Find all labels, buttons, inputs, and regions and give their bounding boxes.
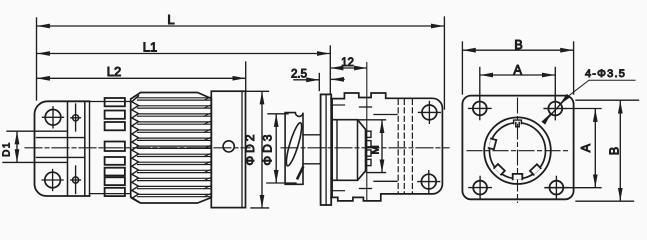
dimension extension line left (x=36.5) bbox=[36, 18, 38, 100]
coupling nut flute zigzag edge bbox=[132, 96, 139, 202]
dimension L line bbox=[38, 25, 444, 27]
dimension B right line bbox=[619, 101, 621, 200]
dimension A top label bbox=[514, 63, 523, 77]
bayonet key teeth bbox=[489, 139, 541, 180]
clamp vertical line x=67.5 bbox=[67, 101, 69, 196]
dimension 2.5 right arrow bbox=[332, 78, 344, 80]
socket insert dome bbox=[332, 120, 366, 181]
dimension A left extension line bbox=[479, 68, 481, 101]
barrel inner shoulder top bbox=[331, 104, 345, 106]
bayonet pin bbox=[223, 141, 234, 152]
rear screw upper bbox=[419, 102, 441, 124]
dimension 2.5 left extension line bbox=[318, 74, 320, 91]
rear screw lower bbox=[418, 171, 440, 193]
hidden edges dashed lines bbox=[398, 100, 412, 194]
svg-text:A: A bbox=[579, 143, 593, 152]
dimension M label bbox=[369, 145, 381, 154]
dimension L1 right extension line bbox=[329, 46, 331, 93]
callout leader line bbox=[567, 80, 635, 97]
dimension L1 label bbox=[143, 40, 157, 55]
dimension D1 lower extension line bbox=[3, 161, 67, 163]
dimension L2 line bbox=[38, 77, 245, 79]
mounting flange side view bbox=[321, 94, 333, 205]
callout label bbox=[585, 68, 626, 80]
dimension PhiD3 label bbox=[260, 132, 274, 166]
dimension PhiD2 label bbox=[243, 132, 257, 166]
dimension M top extension line bbox=[358, 119, 386, 121]
clamp rivet lower bbox=[71, 166, 81, 194]
coupling nut flute lines bbox=[138, 98, 212, 197]
shell outer circle bbox=[484, 117, 551, 184]
svg-text:ΦD2: ΦD2 bbox=[243, 132, 257, 166]
dimension PhiD2 top extension line bbox=[246, 90, 269, 92]
gasket corner hatch bbox=[298, 168, 303, 179]
dimension PhiD3 line bbox=[275, 115, 277, 183]
svg-text:2.5: 2.5 bbox=[291, 69, 307, 81]
dimension B left extension line bbox=[461, 42, 463, 94]
dimension PhiD3 top extension line bbox=[268, 113, 288, 115]
clamp finger rectangles bbox=[105, 98, 125, 196]
svg-text:L1: L1 bbox=[143, 40, 157, 55]
dimension L2 right extension line bbox=[245, 62, 247, 91]
dimension PhiD2 line bbox=[261, 92, 263, 207]
barrel shoulder bottom line bbox=[360, 188, 372, 190]
line through top finger bbox=[90, 101, 131, 103]
clamp vertical line x=84.8 bbox=[84, 101, 86, 196]
svg-text:A: A bbox=[514, 63, 523, 77]
callout leader arrows bbox=[544, 97, 567, 122]
dimension 12 line bbox=[331, 67, 366, 69]
clamp serration line y=157.4 bbox=[37, 156, 85, 158]
flange front outline bbox=[462, 96, 573, 200]
svg-text:M: M bbox=[369, 145, 381, 154]
receptacle neck bottom line bbox=[303, 163, 321, 165]
svg-text:B: B bbox=[607, 147, 621, 155]
dimension D1 line bbox=[16, 132, 18, 162]
dimension 2.5 label bbox=[291, 69, 307, 81]
dimension B right extension line bbox=[573, 42, 575, 94]
dimension A right ext bottom bbox=[545, 187, 601, 189]
dimension L1 line bbox=[38, 53, 330, 55]
coupling nut flute end bevels bbox=[204, 97, 211, 197]
clamp vertical line x=89.5 bbox=[89, 101, 91, 196]
plug shell rear bbox=[211, 91, 245, 207]
dimension A right label bbox=[579, 143, 593, 152]
dimension M line bbox=[381, 121, 383, 172]
rear insulator bottom line bbox=[374, 180, 397, 182]
coupling nut outline bbox=[131, 93, 212, 204]
dimension M bottom extension line bbox=[367, 172, 386, 174]
clamp serration line y=137.6 bbox=[37, 137, 85, 139]
dimension B right ext bottom bbox=[576, 200, 634, 202]
dimension B top line bbox=[463, 49, 572, 51]
flange vertical centerline bbox=[517, 98, 519, 203]
dimension D1 label bbox=[2, 141, 13, 157]
flange horizontal centerline bbox=[467, 150, 569, 152]
dimension 12 label bbox=[341, 57, 354, 69]
dimension B right ext top bbox=[576, 99, 639, 101]
line through bottom finger bbox=[90, 193, 131, 195]
dimension A right extension line bbox=[554, 68, 556, 100]
dimension A right line bbox=[594, 110, 596, 187]
top keyway notch bbox=[514, 120, 522, 127]
dimension L right extension line (x=444.4) bbox=[443, 17, 445, 109]
mounting hole top-left bbox=[469, 97, 491, 119]
dimension A right ext top bbox=[545, 108, 602, 110]
svg-text:ΦD3: ΦD3 bbox=[260, 132, 274, 166]
svg-text:D1: D1 bbox=[2, 141, 13, 157]
receptacle neck top line bbox=[303, 134, 321, 136]
clamp screw lower bbox=[42, 170, 63, 191]
mounting hole bottom-right bbox=[545, 176, 567, 198]
rear insulator top line bbox=[374, 114, 397, 116]
dimension 2.5 left arrow bbox=[294, 79, 319, 81]
gasket outline bbox=[285, 113, 303, 185]
svg-text:12: 12 bbox=[341, 57, 354, 69]
mounting hole bottom-left bbox=[469, 176, 491, 198]
plug cable clamp body outline bbox=[35, 101, 90, 196]
dimension 12 right extension line / panel line bbox=[366, 63, 368, 202]
svg-text:B: B bbox=[514, 38, 522, 52]
barrel shoulder top line bbox=[360, 106, 372, 108]
plug shell inner edge bbox=[241, 91, 243, 207]
clamp screw upper bbox=[43, 107, 64, 128]
socket insert thread teeth bbox=[366, 131, 371, 165]
left view centerline bbox=[25, 147, 250, 149]
svg-text:L: L bbox=[167, 12, 174, 27]
dimension B top label bbox=[514, 38, 522, 52]
barrel inner shoulder bottom bbox=[331, 190, 345, 192]
svg-text:L2: L2 bbox=[107, 64, 121, 79]
gasket section hatch oval bbox=[284, 122, 305, 168]
dimension PhiD3 bottom extension line bbox=[267, 182, 296, 184]
dimension L label bbox=[167, 12, 174, 27]
clamp rivet upper bbox=[71, 104, 81, 131]
dimension L2 label bbox=[107, 64, 121, 79]
middle view centerline bbox=[281, 147, 449, 149]
shell inner bore bbox=[490, 123, 546, 179]
svg-text:4-Φ3.5: 4-Φ3.5 bbox=[585, 68, 626, 80]
dimension D1 upper extension line bbox=[7, 130, 67, 132]
receptacle body profile bbox=[331, 93, 442, 201]
dimension B right label bbox=[607, 147, 621, 155]
mounting hole top-right bbox=[544, 97, 566, 119]
dimension A top line bbox=[481, 74, 555, 76]
dimension PhiD2 bottom extension line bbox=[251, 207, 269, 209]
